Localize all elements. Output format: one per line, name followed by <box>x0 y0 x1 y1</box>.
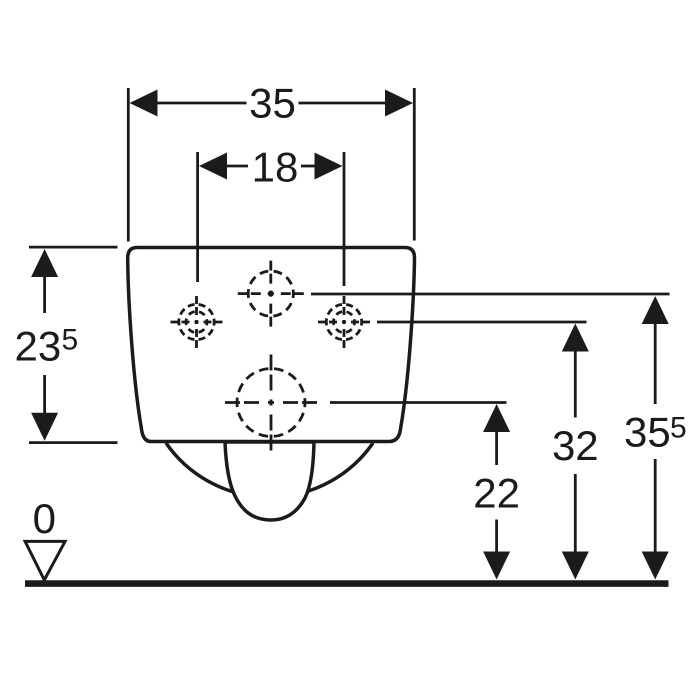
dimension 22 line + arrows <box>495 432 498 466</box>
dimension 18: extension lines <box>196 152 199 282</box>
svg-text:5: 5 <box>670 411 687 444</box>
svg-text:23: 23 <box>15 323 62 370</box>
extension line to 35^5 (from top centre hole) <box>311 293 670 296</box>
dimension 32 line + arrows <box>574 350 577 418</box>
svg-text:35: 35 <box>624 408 671 455</box>
svg-text:0: 0 <box>33 495 56 542</box>
dimension 35 top: extension lines <box>127 88 130 242</box>
dimension 23^5 left: extension lines <box>29 246 118 249</box>
ground line <box>25 580 669 587</box>
extension line to 22 (from waste outlet hole) <box>330 401 507 404</box>
svg-text:32: 32 <box>552 422 599 469</box>
datum triangle <box>25 541 65 580</box>
extension line to 32 (from right fixing hole) <box>377 321 587 324</box>
svg-text:22: 22 <box>473 470 520 517</box>
dimension 35^5 line + arrows <box>654 323 657 405</box>
dimension 23^5 line + arrows <box>43 277 46 314</box>
svg-text:5: 5 <box>62 324 79 357</box>
waste outlet hole centre <box>225 355 317 451</box>
fixing hole left <box>171 296 223 348</box>
trapway outlet U <box>225 442 314 520</box>
bowl silhouette outer arc <box>166 443 373 497</box>
dimension 35 line + arrows <box>156 102 247 105</box>
fixing hole right <box>318 296 370 348</box>
WC ceramic body outline <box>128 248 415 442</box>
svg-text:35: 35 <box>249 80 296 127</box>
dimension 18 line + arrows <box>226 165 248 168</box>
svg-text:18: 18 <box>252 144 299 191</box>
water supply hole top centre <box>238 261 304 327</box>
